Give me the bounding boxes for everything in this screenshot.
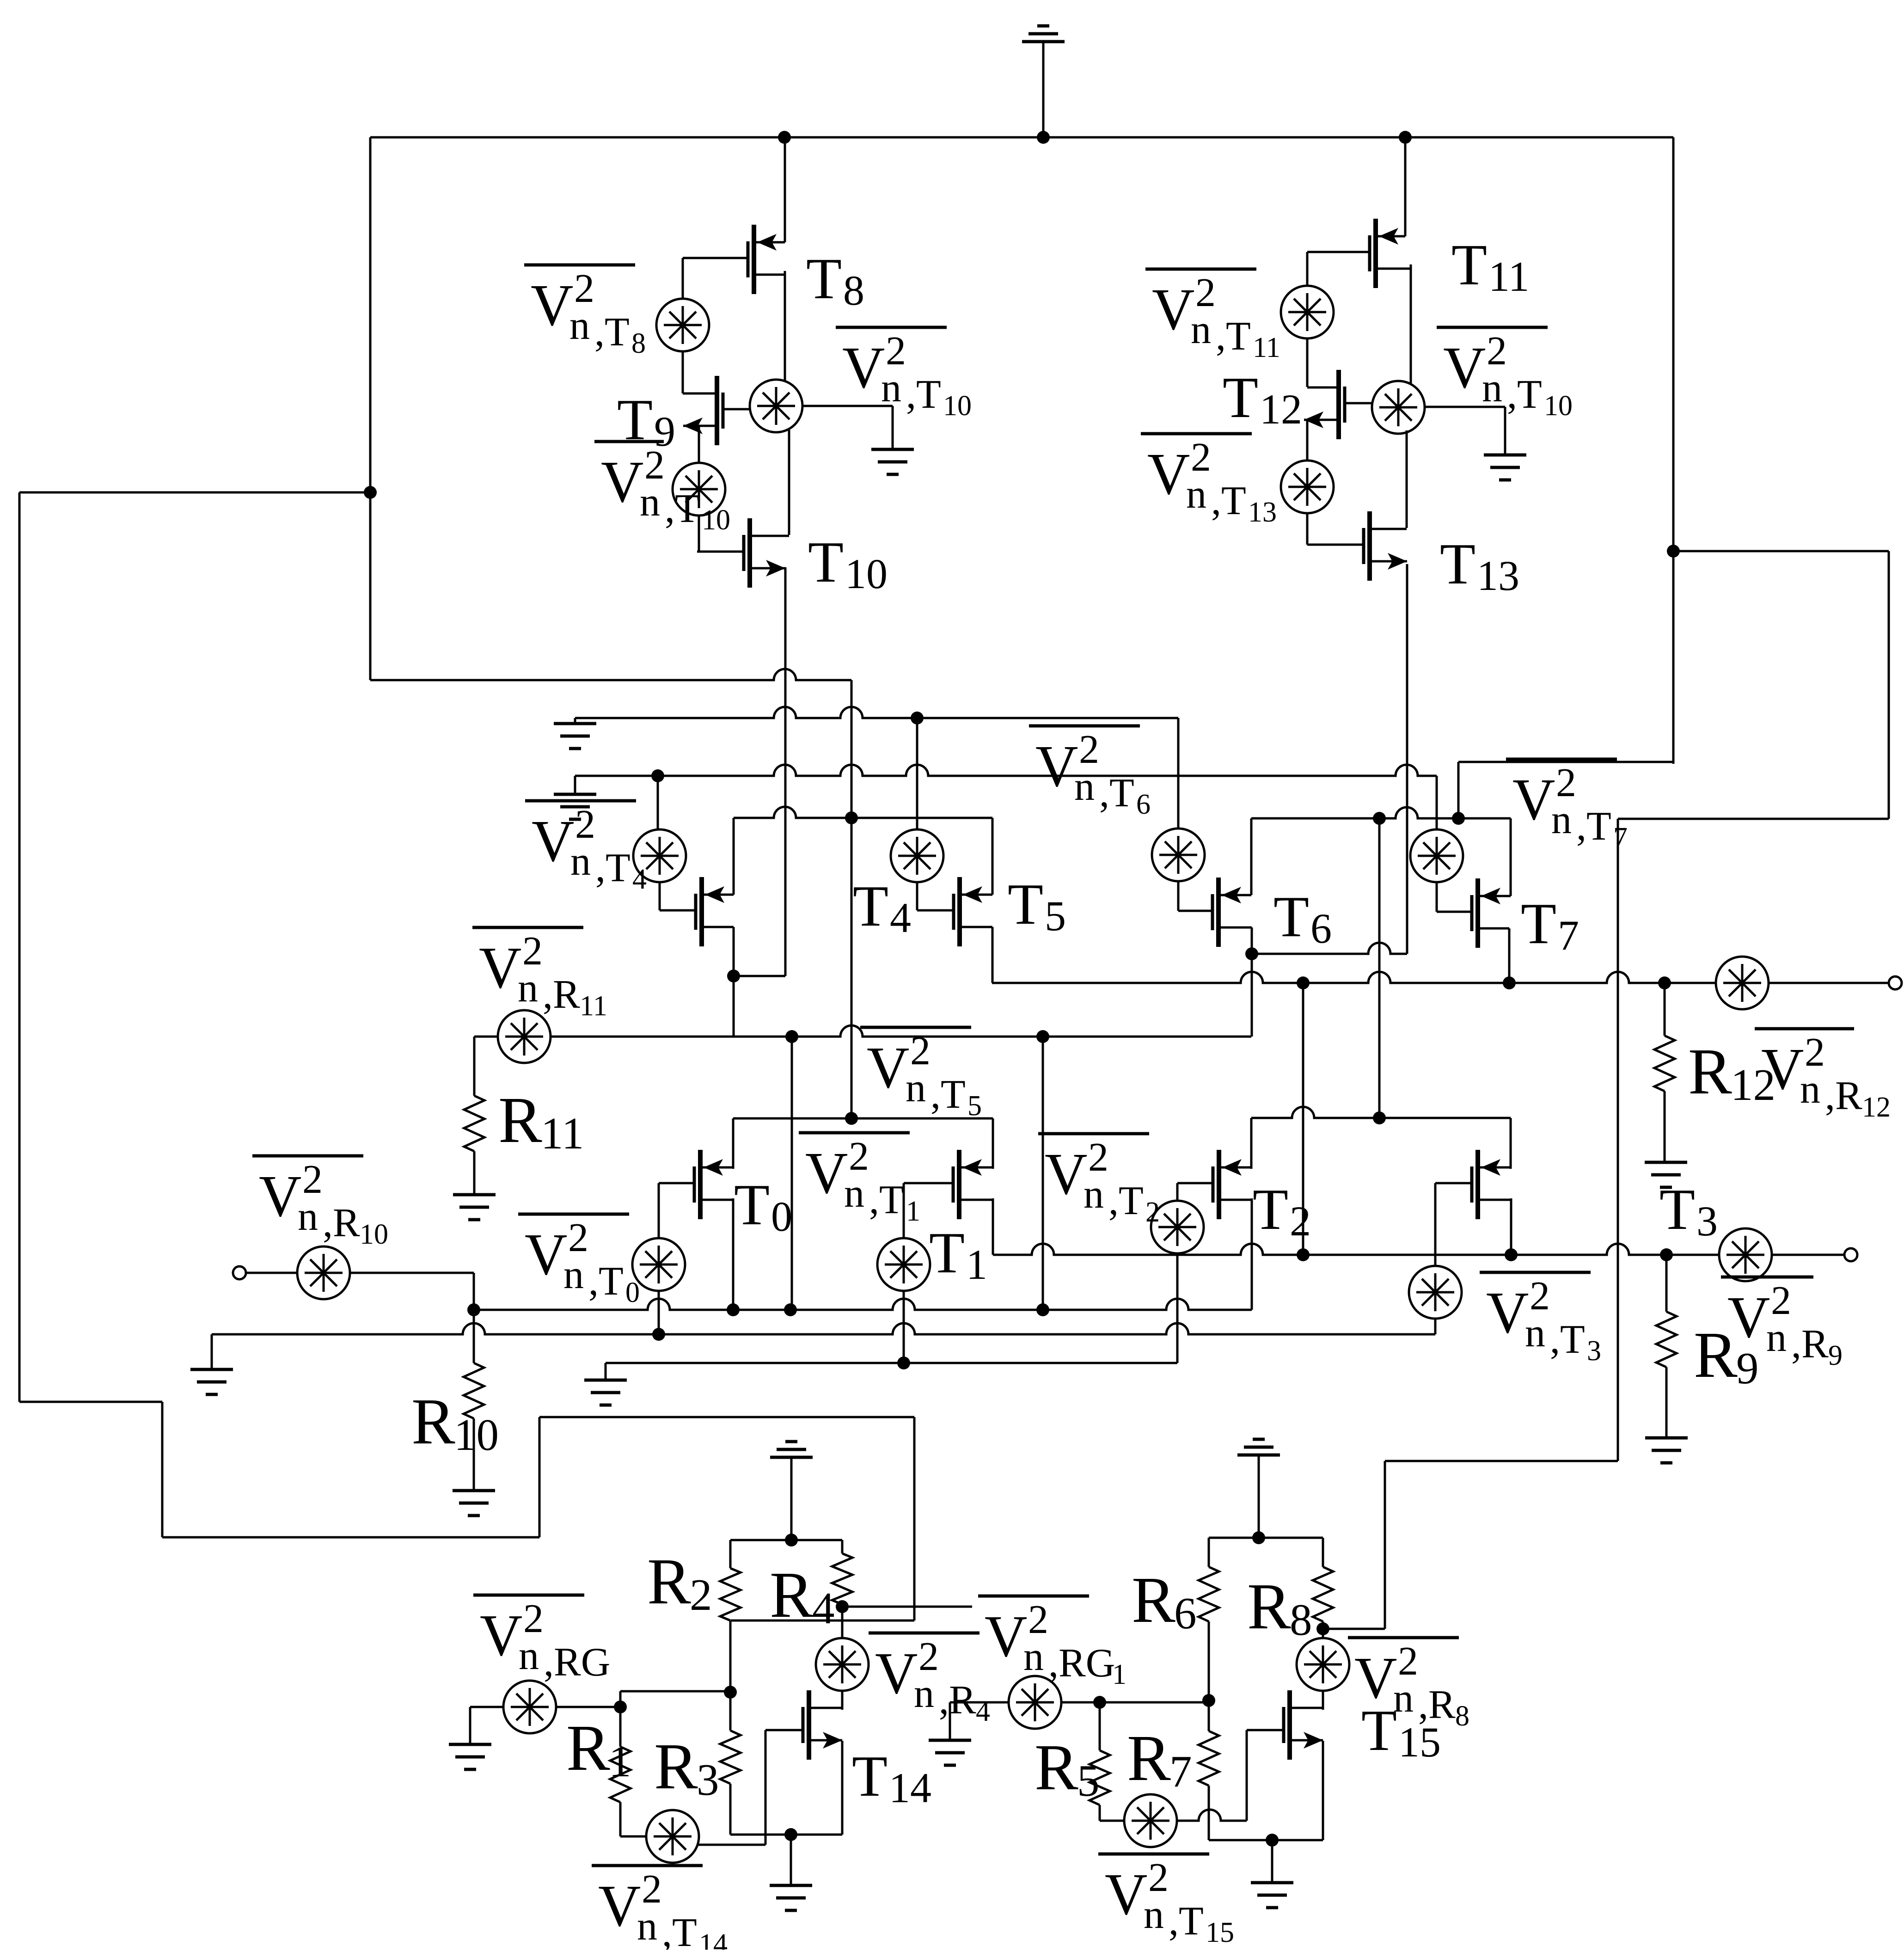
wire riser 2256 to bus1: [1042, 1037, 1044, 1310]
svg-text:T: T: [1659, 1178, 1695, 1242]
svg-text:V: V: [1486, 1280, 1529, 1345]
svg-text:R: R: [647, 1545, 691, 1618]
resistor R11: [464, 1096, 484, 1151]
svg-text:7: 7: [1169, 1747, 1192, 1796]
noise source Vn2,T10 lower: [673, 463, 725, 516]
label Vn2,T3: [1480, 1271, 1591, 1274]
wire feedback to R2 bottom: [731, 1620, 914, 1622]
svg-text:V: V: [1105, 1861, 1147, 1927]
svg-text:T: T: [1521, 892, 1556, 956]
wire R10 column: [473, 1310, 475, 1363]
svg-text:6: 6: [1174, 1589, 1197, 1638]
transistor T1: [957, 1150, 961, 1219]
svg-text:,R: ,R: [1791, 1322, 1829, 1367]
svg-text:V: V: [601, 449, 643, 515]
svg-text:2: 2: [886, 329, 906, 374]
junction dot drain line at right link: [1452, 812, 1465, 825]
svg-text:T: T: [1440, 532, 1475, 596]
wire R7 bottom lead: [1208, 1786, 1210, 1840]
svg-text:8: 8: [843, 267, 864, 314]
noise source Vn2,T1: [877, 1238, 930, 1291]
junction dot drain line at T2 riser: [1373, 812, 1386, 825]
wire Vn2,T10 ground drop right: [1504, 407, 1506, 455]
transistor T0: [698, 1150, 703, 1219]
wire T4 drain riser: [733, 818, 735, 895]
svg-text:,RG: ,RG: [1048, 1641, 1115, 1686]
junction dot rail/cascode link: [1297, 976, 1310, 989]
ground under Vn2,T10: [871, 448, 914, 451]
junction dot RG/R1 node: [614, 1700, 627, 1713]
svg-text:,T: ,T: [1108, 1179, 1144, 1223]
svg-text:14: 14: [889, 1764, 931, 1811]
svg-text:T: T: [734, 1173, 770, 1237]
wire Vn2,T2 to T2 gate: [1176, 1183, 1179, 1201]
svg-text:R: R: [770, 1558, 814, 1631]
wire feedback line: [539, 1416, 914, 1418]
svg-text:2: 2: [522, 929, 543, 974]
svg-text:T: T: [808, 530, 844, 595]
wire Vn2,R4 to T14 drain: [841, 1691, 844, 1710]
wire Vn2,T14 to T14 gate: [698, 1844, 765, 1846]
wire node up-right: [619, 1691, 622, 1707]
svg-text:R: R: [1035, 1731, 1078, 1804]
svg-text:2: 2: [918, 1634, 939, 1679]
noise source Vn2,T13: [1281, 460, 1334, 513]
svg-text:4: 4: [632, 864, 647, 895]
svg-text:2: 2: [644, 443, 665, 488]
wire R8 top lead: [1322, 1538, 1324, 1567]
wire far-left step right: [19, 1401, 162, 1403]
wire Vn2,T1 to T1 gate: [903, 1183, 905, 1238]
junction dot T2/T3 drain to T6: [1373, 1111, 1386, 1124]
ground bias line lower stem: [574, 776, 576, 794]
svg-text:,T: ,T: [1211, 479, 1246, 523]
wire R3 top lead: [729, 1693, 732, 1731]
wire bias to Vn2,T6: [1177, 718, 1180, 829]
svg-text:1: 1: [966, 1241, 987, 1288]
svg-text:T: T: [853, 874, 888, 939]
wire Vn2,T15 to T15 gate: [1177, 1810, 1247, 1821]
svg-text:2: 2: [1195, 270, 1216, 315]
wire T2/T3 drain line: [1251, 1107, 1511, 1118]
noise source Vn2,T0: [632, 1238, 685, 1291]
junction dot bus3/T1 noise: [897, 1357, 910, 1369]
svg-text:10: 10: [943, 390, 972, 422]
wire T10 source to T4 source: [734, 975, 785, 977]
wire bottom-left run: [162, 1536, 539, 1539]
svg-text:2: 2: [1805, 1030, 1825, 1075]
label Vn2,R4: [869, 1632, 980, 1635]
resistor R9: [1656, 1312, 1677, 1367]
svg-text:14: 14: [699, 1928, 728, 1950]
wire Vn2,R10 drop: [473, 1273, 475, 1310]
noise source Vn2,R10: [297, 1246, 350, 1299]
wire R2/R4 top bus: [730, 1539, 842, 1541]
wire Vn2,T6 to T6 gate: [1177, 881, 1180, 911]
svg-text:2: 2: [1771, 1278, 1791, 1323]
svg-text:T: T: [1451, 233, 1487, 297]
wire riser T6 to T2 drain line: [1378, 818, 1381, 1118]
wire R11 drop: [473, 1037, 476, 1096]
wire top supply bus: [370, 136, 1673, 139]
svg-text:,T: ,T: [1169, 1899, 1204, 1944]
junction dot R4 bottom: [836, 1600, 849, 1613]
junction dot T6 source / T13 line: [1245, 947, 1258, 960]
terminal output 1: [1889, 976, 1902, 989]
svg-text:V: V: [531, 272, 573, 338]
label Vn2,R9: [1721, 1276, 1813, 1279]
junction dot source line / ground: [784, 1828, 797, 1841]
svg-text:,R: ,R: [1825, 1074, 1862, 1118]
noise source Vn2,T10 right block: [1372, 381, 1425, 434]
node dot left rail branch: [364, 486, 377, 499]
wire upper output rail: [992, 972, 1716, 983]
svg-text:R: R: [411, 1385, 455, 1458]
noise source Vn2,R9: [1719, 1228, 1772, 1281]
resistor R1: [610, 1747, 631, 1802]
ground under Vn2,T10 right: [1484, 454, 1526, 457]
junction dot T4 source node: [727, 970, 740, 982]
wire T13 source down: [1406, 564, 1408, 954]
wire RG ground stem: [469, 1707, 471, 1744]
ground flipped above R6/R8: [1237, 1454, 1280, 1457]
svg-text:3: 3: [1696, 1197, 1718, 1245]
resistor R8: [1313, 1567, 1333, 1621]
wire flipped ground stem: [790, 1457, 793, 1540]
resistor R12: [1654, 1036, 1675, 1091]
junction dot RG1/R5 node: [1093, 1696, 1106, 1709]
transistor T2: [1217, 1150, 1221, 1219]
svg-text:,T: ,T: [931, 1072, 966, 1117]
wire to output terminal 2: [1772, 1254, 1844, 1256]
svg-text:6: 6: [1136, 789, 1151, 820]
wire Vn2,T10 right lead: [1425, 406, 1505, 408]
svg-text:6: 6: [1310, 905, 1332, 952]
wire cascode link: [1302, 983, 1304, 1255]
label Vn2,T10 upper: [836, 326, 947, 329]
wire T3 source drop: [1510, 1198, 1512, 1255]
label Vn2,R8: [1348, 1636, 1459, 1639]
svg-text:R: R: [654, 1730, 698, 1803]
wire R6 top lead: [1208, 1538, 1210, 1567]
svg-text:1: 1: [1112, 1659, 1126, 1690]
junction dot drain line riser: [845, 1112, 858, 1125]
svg-text:R: R: [1132, 1563, 1175, 1636]
wire Vn2,T8 to T9 drain node: [682, 351, 684, 393]
svg-text:2: 2: [575, 802, 595, 847]
svg-text:1: 1: [609, 1737, 631, 1786]
noise source Vn2,T11: [1281, 286, 1334, 338]
svg-text:5: 5: [1077, 1756, 1100, 1805]
junction dot drain line: [845, 811, 858, 824]
label Vn2,T15: [1098, 1853, 1209, 1856]
svg-text:,R: ,R: [543, 972, 580, 1017]
svg-text:2: 2: [1148, 1855, 1169, 1900]
ground bias lower: [554, 793, 596, 796]
svg-text:V: V: [1443, 335, 1486, 400]
label Vn2,T11: [1145, 268, 1256, 271]
junction dot R6/R7 node: [1202, 1694, 1215, 1707]
junction dot R8 bottom: [1316, 1622, 1329, 1635]
svg-text:V: V: [479, 935, 521, 1001]
wire flipped ground stem right: [1258, 1455, 1260, 1538]
svg-text:2: 2: [1530, 1274, 1550, 1319]
svg-text:2: 2: [574, 266, 594, 311]
svg-text:8: 8: [1455, 1700, 1469, 1732]
svg-text:R: R: [1688, 1035, 1732, 1108]
wire bus2 ground stem: [211, 1334, 213, 1369]
wire R4 node to right: [842, 1606, 972, 1608]
noise source Vn2,T7: [1410, 829, 1463, 882]
svg-text:12: 12: [1862, 1092, 1891, 1123]
wire to far-left rail: [19, 491, 370, 494]
noise source Vn2,RG: [503, 1681, 556, 1733]
wire Vn2,T4 to T4 gate: [659, 882, 661, 910]
wire R2 bottom lead: [729, 1621, 732, 1693]
wire bias to Vn2,T7: [1436, 776, 1438, 829]
wire R12 drop: [1664, 983, 1666, 1036]
svg-text:V: V: [842, 335, 885, 400]
wire source bus 1: [474, 1299, 1252, 1310]
wire far-left step down: [161, 1402, 164, 1537]
wire Vn2,T10 right lead: [802, 405, 893, 407]
wire Vn2,T2 bottom: [1176, 1253, 1179, 1363]
svg-text:V: V: [1035, 733, 1078, 799]
svg-text:V: V: [875, 1640, 918, 1706]
junction dot right rail: [1667, 545, 1680, 558]
svg-text:9: 9: [1736, 1344, 1759, 1393]
wire T15 source line: [1209, 1839, 1323, 1842]
resistor R7: [1199, 1731, 1219, 1786]
wire Vn2,T11 to T12 drain: [1306, 338, 1309, 387]
wire T8 gate to Vn2,T8: [682, 258, 684, 299]
svg-text:11: 11: [1488, 253, 1530, 300]
label Vn2,RG: [473, 1594, 584, 1597]
svg-text:2: 2: [523, 1596, 544, 1641]
noise source Vn2,T3: [1409, 1266, 1462, 1319]
wire Vn2,R11 left lead: [474, 1036, 498, 1038]
wire R11 to ground: [473, 1151, 476, 1195]
svg-text:,T: ,T: [1216, 314, 1251, 359]
wire R2 top lead: [729, 1540, 732, 1568]
svg-text:,R: ,R: [323, 1201, 360, 1246]
svg-text:3: 3: [1587, 1335, 1601, 1367]
transistor T8: [752, 225, 756, 294]
label Vn2,T4: [525, 799, 636, 803]
wire to output terminal 1: [1769, 982, 1889, 984]
transistor T14: [807, 1690, 811, 1760]
svg-text:V: V: [1512, 767, 1555, 832]
svg-text:V: V: [867, 1035, 909, 1100]
ground under Vn2,RG: [449, 1743, 491, 1746]
wire Vn2,T5 to T5 gate: [916, 882, 918, 910]
svg-text:,T: ,T: [595, 846, 631, 890]
svg-text:,T: ,T: [906, 372, 941, 417]
label Vn2,T5: [860, 1026, 971, 1029]
wire Vn2,T10 ground drop: [892, 406, 894, 449]
junction dot T11 drain on top bus: [1399, 131, 1412, 144]
transistor T4: [699, 877, 704, 946]
transistor T10: [747, 518, 752, 588]
wire T8 source to noise source: [784, 271, 786, 381]
wire lower output rail: [993, 1244, 1719, 1255]
wire Vn2,T0 to T0 gate: [658, 1183, 660, 1238]
label Vn2,T6: [1029, 724, 1140, 728]
svg-text:3: 3: [697, 1755, 719, 1805]
wire right link lower: [1385, 1460, 1618, 1462]
wire Vn2,T3 to T3 gate: [1434, 1183, 1437, 1266]
wire T8 drain lead: [784, 137, 786, 242]
wire T0 drain riser: [732, 1118, 735, 1169]
wire bias line lower: [575, 765, 1437, 776]
svg-text:V: V: [532, 808, 574, 874]
wire T11 source down to noise: [1410, 264, 1412, 384]
svg-text:V: V: [598, 1873, 641, 1939]
svg-text:10: 10: [360, 1219, 388, 1250]
svg-text:V: V: [480, 1602, 522, 1668]
wire RG1 ground stem: [949, 1702, 951, 1740]
transistor T5: [957, 877, 962, 946]
wire far-left rail: [18, 492, 21, 1402]
wire R8 bottom lead: [1322, 1621, 1324, 1629]
svg-text:11: 11: [1253, 332, 1280, 363]
svg-text:,T: ,T: [869, 1178, 904, 1222]
svg-text:2: 2: [910, 1029, 931, 1074]
ground bus2: [190, 1368, 233, 1371]
transistor T6: [1216, 878, 1221, 947]
wire R9 to ground: [1665, 1367, 1668, 1438]
wire T15 source drop: [1322, 1741, 1324, 1840]
wire Vn2,R10 right lead: [350, 1272, 474, 1274]
wire R4 to Vn2,R4: [841, 1607, 844, 1638]
resistor R6: [1199, 1567, 1219, 1621]
wire T7 source drop: [1508, 928, 1511, 983]
svg-text:2: 2: [1145, 1197, 1160, 1228]
junction dot rail/T7 source: [1503, 976, 1516, 989]
svg-text:T: T: [1008, 872, 1043, 937]
junction dot bias/T4 gate: [651, 769, 664, 782]
svg-text:,T: ,T: [1099, 771, 1134, 816]
svg-text:R: R: [1127, 1721, 1171, 1794]
wire T12 source down to Vn2,T13: [1306, 420, 1309, 460]
svg-text:4: 4: [890, 894, 911, 941]
svg-text:10: 10: [845, 550, 888, 597]
svg-text:4: 4: [812, 1584, 835, 1633]
transistor T15: [1287, 1690, 1292, 1760]
label Vn2,T13: [1141, 432, 1252, 436]
label Vn2,T0: [518, 1213, 629, 1216]
svg-text:,T: ,T: [1507, 372, 1542, 417]
junction dot top ground on top bus: [1037, 131, 1050, 144]
noise source Vn2,R8: [1297, 1638, 1349, 1691]
wire feedback drop: [913, 1417, 916, 1621]
svg-text:0: 0: [625, 1277, 640, 1308]
wire ground stem: [790, 1835, 792, 1885]
wire Vn2,T7 to T7 gate: [1436, 882, 1438, 912]
svg-text:5: 5: [967, 1090, 982, 1122]
wire riser 1713 to bus1: [791, 1037, 793, 1310]
svg-text:11: 11: [541, 1109, 584, 1158]
ground under T14: [770, 1884, 812, 1887]
svg-text:13: 13: [1248, 497, 1277, 528]
wire T5 source drop: [992, 927, 994, 983]
transistor T13: [1367, 511, 1372, 581]
label Vn2,T10 right: [1437, 326, 1548, 329]
junction dot R6/R8 bus: [1252, 1531, 1265, 1544]
resistor R10: [464, 1363, 484, 1418]
svg-text:12: 12: [1260, 386, 1302, 433]
svg-text:V: V: [1152, 276, 1194, 342]
ground flipped above R2/R4: [770, 1456, 813, 1459]
svg-text:,T: ,T: [1576, 804, 1611, 849]
svg-text:V: V: [525, 1222, 567, 1287]
wire R6/R8 top bus: [1209, 1537, 1323, 1539]
label Vn2,T2: [1038, 1132, 1149, 1136]
junction dot source line / ground right: [1266, 1834, 1279, 1847]
svg-text:,T: ,T: [665, 486, 700, 531]
svg-text:R: R: [566, 1711, 610, 1784]
ground bias line upper stem: [574, 718, 576, 724]
svg-text:,T: ,T: [1550, 1317, 1585, 1362]
wire T7-drain link to right rail: [1458, 761, 1673, 763]
transistor T12: [1336, 370, 1341, 439]
wire Vn2,T1 bottom: [903, 1291, 905, 1363]
label Vn2,R11: [472, 926, 583, 929]
svg-text:0: 0: [771, 1193, 792, 1240]
svg-text:T: T: [929, 1221, 965, 1285]
junction dot rail2/cascode link: [1297, 1248, 1310, 1261]
wire R4 top lead: [841, 1540, 844, 1553]
wire long right rail down: [1617, 819, 1619, 1461]
wire source chain down: [733, 976, 735, 1037]
svg-text:10: 10: [702, 504, 730, 536]
junction dot bus1 x1713: [784, 1303, 797, 1316]
wire T2 source drop: [1251, 1198, 1253, 1310]
wire drop to Vn2,T4: [657, 776, 659, 829]
wire T7 drain drop: [1510, 818, 1512, 896]
wire T11 gate to Vn2,T11: [1306, 252, 1309, 286]
wire right branch drop: [1888, 551, 1890, 819]
svg-text:T: T: [852, 1744, 888, 1809]
wire T5 drain drop: [992, 818, 994, 895]
junction dot bias line x1713: [785, 1030, 798, 1043]
wire R7 top lead: [1208, 1700, 1210, 1731]
wire link drop to T7 drain line: [1457, 762, 1460, 818]
noise source Vn2,T14: [646, 1810, 699, 1863]
svg-text:1: 1: [906, 1196, 920, 1227]
noise source Vn2,RG1: [1009, 1676, 1061, 1729]
svg-text:5: 5: [1045, 892, 1066, 939]
wire T14 source line: [730, 1834, 842, 1836]
wire terminal to Vn2,R10: [246, 1272, 297, 1274]
noise source Vn2,R11: [498, 1010, 551, 1063]
svg-text:T: T: [1253, 1178, 1288, 1242]
svg-text:2: 2: [1556, 761, 1576, 805]
label Vn2,R10: [252, 1154, 363, 1158]
wire T4/T5 drain line: [734, 807, 992, 818]
ground under Vn2,RG1: [929, 1739, 971, 1742]
wire Vn2,RG1 left lead: [950, 1701, 1009, 1704]
svg-text:2: 2: [568, 1215, 588, 1260]
svg-text:7: 7: [1613, 822, 1628, 853]
svg-text:2: 2: [1487, 329, 1507, 374]
wire T10 source down: [784, 567, 787, 976]
wire R3 bottom lead: [729, 1784, 732, 1835]
ground under T15: [1251, 1881, 1293, 1884]
wire R1 top lead: [619, 1707, 622, 1747]
svg-text:7: 7: [1558, 912, 1579, 959]
junction dot bias/T5 gate: [911, 712, 924, 724]
